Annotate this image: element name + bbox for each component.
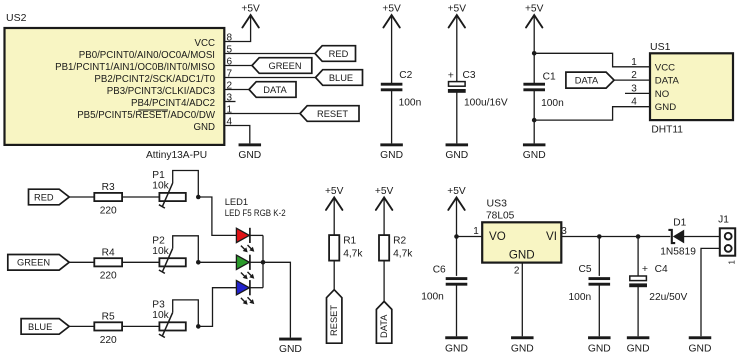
- svg-text:GREEN: GREEN: [17, 258, 50, 268]
- svg-text:+: +: [448, 69, 454, 81]
- net flag DATA (to sensor): [566, 72, 614, 88]
- wire BLUE flag to R5: [69, 325, 94, 327]
- svg-text:100n: 100n: [569, 292, 592, 303]
- svg-text:+5V: +5V: [447, 186, 466, 197]
- svg-text:220: 220: [100, 335, 117, 346]
- net flag RESET (output): [300, 106, 359, 122]
- wire C5 from rail: [598, 237, 600, 276]
- svg-text:1N5819: 1N5819: [660, 247, 696, 258]
- svg-text:10k: 10k: [152, 246, 169, 257]
- svg-text:C5: C5: [579, 264, 592, 275]
- wire J1 pin2 to GND: [701, 248, 720, 336]
- resistor R2 4,7k: [379, 235, 389, 261]
- svg-text:DATA: DATA: [263, 85, 287, 95]
- svg-text:PB4/PCINT4/ADC2: PB4/PCINT4/ADC2: [131, 98, 215, 109]
- svg-text:GND: GND: [238, 150, 261, 161]
- svg-text:GND: GND: [445, 344, 468, 355]
- resistor R5 220: [94, 322, 122, 330]
- svg-text:VI: VI: [546, 230, 557, 243]
- svg-text:US3: US3: [487, 197, 508, 209]
- svg-text:DHT11: DHT11: [651, 124, 683, 135]
- wire GREEN flag to R4: [69, 261, 94, 263]
- US2 pin label row 1: [77, 110, 216, 121]
- svg-text:LED1: LED1: [225, 196, 248, 207]
- wire VO node to US3 pin1: [457, 236, 483, 238]
- wire +5V to C1 node: [533, 16, 535, 85]
- svg-text:P3: P3: [152, 299, 165, 310]
- svg-text:GND: GND: [523, 150, 546, 161]
- capacitor C2: [381, 83, 403, 92]
- svg-text:PB5/PCINT5/RESET/ADC0/DW: PB5/PCINT5/RESET/ADC0/DW: [77, 110, 216, 121]
- wire green cathode to common: [250, 261, 263, 263]
- svg-text:2: 2: [514, 265, 520, 276]
- net flag DATA (vertical): [376, 301, 391, 343]
- ground J1 GND: [689, 336, 712, 354]
- ground US3 GND: [511, 336, 534, 354]
- ground C1 GND: [523, 143, 546, 160]
- svg-text:+5V: +5V: [382, 4, 401, 15]
- svg-text:NO: NO: [655, 89, 669, 100]
- svg-text:R4: R4: [102, 247, 115, 258]
- svg-text:+5V: +5V: [241, 4, 260, 15]
- wire LED common cathode bus: [262, 235, 264, 287]
- svg-text:100n: 100n: [399, 98, 422, 109]
- svg-text:3: 3: [561, 226, 567, 237]
- wire DHT11 pin1 to +5V node: [534, 53, 650, 67]
- svg-text:PB2/PCINT2/SCK/ADC1/T0: PB2/PCINT2/SCK/ADC1/T0: [94, 74, 215, 85]
- junction P1 wiper/right terminal: [196, 195, 201, 200]
- svg-text:J1: J1: [718, 215, 729, 226]
- svg-text:220: 220: [100, 205, 117, 216]
- svg-text:C1: C1: [543, 72, 556, 83]
- svg-text:US1: US1: [650, 41, 671, 53]
- svg-text:220: 220: [100, 271, 117, 282]
- svg-text:C4: C4: [655, 264, 668, 275]
- svg-text:R1: R1: [343, 236, 356, 247]
- +5V supply VCC US2: [241, 4, 260, 28]
- svg-text:+5V: +5V: [448, 4, 467, 15]
- net flag RESET (vertical): [327, 290, 342, 344]
- svg-text:US2: US2: [6, 12, 27, 24]
- junction +5V/C6/VO: [454, 234, 459, 239]
- net flag RED (output): [315, 46, 356, 62]
- svg-text:BLUE: BLUE: [28, 322, 52, 332]
- svg-text:4,7k: 4,7k: [343, 249, 363, 260]
- svg-text:LED F5 RGB K-2: LED F5 RGB K-2: [225, 208, 286, 218]
- resistor R4 220: [94, 258, 122, 266]
- svg-text:RESET: RESET: [317, 109, 348, 119]
- wire R5 to P pot: [122, 325, 159, 327]
- svg-text:1: 1: [728, 259, 737, 264]
- svg-text:100n: 100n: [421, 292, 444, 303]
- wire P2 wiper loop: [173, 236, 199, 262]
- svg-text:BLUE: BLUE: [329, 73, 353, 83]
- junction P2 wiper/right terminal: [196, 260, 201, 265]
- IC US2 Attiny13A-PU: [5, 28, 225, 145]
- svg-text:GND: GND: [511, 344, 534, 355]
- net flag RED (input): [29, 189, 70, 205]
- connector J1: [720, 228, 735, 255]
- wire LED common to GND: [263, 262, 290, 337]
- svg-text:GND: GND: [193, 122, 215, 133]
- net flag BLUE (input): [21, 319, 69, 335]
- svg-text:Attiny13A-PU: Attiny13A-PU: [146, 150, 207, 161]
- svg-text:R2: R2: [393, 236, 406, 247]
- wire C6 to GND: [456, 284, 458, 336]
- diode D1 1N5819 (Schottky): [668, 230, 684, 244]
- svg-text:R3: R3: [102, 182, 115, 193]
- svg-text:+: +: [642, 263, 648, 275]
- svg-text:4,7k: 4,7k: [393, 249, 413, 260]
- wire DHT11 pin4 to GND node: [534, 107, 650, 120]
- wire US2 pin7 to BLUE flag: [224, 77, 315, 79]
- svg-text:GND: GND: [279, 344, 302, 355]
- svg-text:+5V: +5V: [525, 4, 544, 15]
- svg-text:GND: GND: [588, 344, 611, 355]
- wire DHT11 pin3 stub: [625, 92, 650, 94]
- wire US2 pin1 to RESET flag: [224, 113, 300, 115]
- svg-text:P2: P2: [152, 235, 165, 246]
- +5V supply C2 rail: [382, 4, 401, 28]
- net flag GREEN (input): [8, 255, 69, 271]
- wire US2 pin3 stub: [224, 101, 235, 103]
- wire US3 pin2 to GND: [521, 263, 523, 337]
- svg-text:1: 1: [473, 226, 479, 237]
- capacitor C4 (electrolytic): [629, 276, 647, 287]
- svg-text:PB3/PCINT3/CLKI/ADC3: PB3/PCINT3/CLKI/ADC3: [107, 86, 215, 97]
- svg-text:GND: GND: [689, 344, 712, 355]
- svg-text:DATA: DATA: [655, 76, 680, 87]
- svg-text:+5V: +5V: [325, 186, 344, 197]
- wire red cathode to common: [250, 234, 263, 236]
- wire R1 to RESET flag: [333, 261, 335, 290]
- svg-text:R5: R5: [102, 311, 115, 322]
- wire C4 to GND: [637, 286, 639, 337]
- wire C1 to GND node: [533, 90, 535, 144]
- wire US2 pin4 to GND: [224, 126, 249, 144]
- svg-text:PB1/PCINT1/AIN1/OC0B/INT0/MISO: PB1/PCINT1/AIN1/OC0B/INT0/MISO: [55, 62, 215, 73]
- +5V supply C3 rail: [448, 4, 467, 28]
- svg-text:RED: RED: [34, 192, 54, 202]
- resistor R3 220: [94, 193, 122, 201]
- junction +5V/C1/DHT VCC: [532, 51, 537, 56]
- wire R3 to P pot: [122, 196, 159, 198]
- svg-text:DATA: DATA: [575, 76, 599, 86]
- +5V supply C1 rail: [525, 4, 544, 28]
- trimmer P1 10k: [159, 183, 186, 208]
- svg-text:10k: 10k: [152, 181, 169, 192]
- +5V supply C6 rail: [447, 186, 466, 210]
- svg-text:RED: RED: [329, 49, 349, 59]
- capacitor C3 (electrolytic): [448, 82, 466, 93]
- ground C5 GND: [588, 336, 611, 354]
- junction C4/VI rail: [636, 234, 641, 239]
- svg-text:P1: P1: [152, 170, 165, 181]
- wire +5V to C2: [391, 16, 393, 85]
- resistor R1 4,7k: [329, 235, 339, 261]
- wire P2 to LED green anode: [198, 261, 236, 263]
- svg-text:GND: GND: [627, 344, 650, 355]
- wire +5V to R2: [383, 198, 385, 235]
- junction C5/VI rail: [597, 234, 602, 239]
- wire +5V to R1: [333, 198, 335, 235]
- wire VI rail: [561, 236, 670, 238]
- ground LED GND: [279, 338, 302, 355]
- ground C4 GND: [627, 336, 650, 354]
- wire +5V to C3: [456, 16, 458, 82]
- svg-text:RESET: RESET: [329, 305, 339, 336]
- ground C2 GND: [380, 143, 403, 160]
- svg-text:GREEN: GREEN: [268, 61, 301, 71]
- svg-text:VCC: VCC: [195, 38, 215, 49]
- svg-text:100u/16V: 100u/16V: [464, 98, 508, 109]
- svg-text:78L05: 78L05: [486, 211, 515, 222]
- wire C3 to GND: [456, 92, 458, 143]
- ground C3 GND: [445, 143, 468, 160]
- wire P3 to LED blue anode: [198, 288, 236, 327]
- ground C6 GND: [445, 336, 468, 354]
- wire P1 wiper loop: [173, 171, 199, 198]
- wire +5V to VO node: [456, 198, 458, 237]
- wire RED flag to R3: [69, 196, 94, 198]
- capacitor C1: [523, 83, 545, 92]
- svg-text:D1: D1: [673, 217, 686, 228]
- IC US3 78L05 regulator: [482, 222, 561, 262]
- svg-text:GND: GND: [509, 248, 535, 261]
- +5V supply R1 rail: [325, 186, 344, 210]
- svg-text:100n: 100n: [541, 98, 564, 109]
- wire US2 pin6 to GREEN flag: [224, 65, 252, 67]
- IC US1 DHT11: [650, 53, 733, 120]
- +5V supply R2 rail: [375, 186, 394, 210]
- svg-text:PB0/PCINT0/AIN0/OC0A/MOSI: PB0/PCINT0/AIN0/OC0A/MOSI: [79, 50, 215, 61]
- svg-text:C3: C3: [463, 70, 476, 81]
- LED blue chip: [236, 280, 254, 305]
- svg-text:10k: 10k: [152, 310, 169, 321]
- svg-text:C2: C2: [399, 70, 412, 81]
- junction LED common: [261, 260, 266, 265]
- svg-text:GND: GND: [445, 150, 468, 161]
- wire P1 to LED red anode: [198, 197, 236, 235]
- junction P3 wiper/right terminal: [196, 324, 201, 329]
- wire P3 wiper loop: [173, 300, 199, 327]
- junction C1 GND/DHT GND: [532, 118, 537, 123]
- wire C6 from node: [456, 237, 458, 276]
- svg-text:C6: C6: [433, 265, 446, 276]
- capacitor C5: [589, 277, 611, 286]
- svg-text:VO: VO: [489, 230, 506, 243]
- wire C5 to GND: [598, 284, 600, 336]
- net flag DATA (output): [249, 82, 296, 98]
- wire D1 to J1 pin1: [684, 236, 720, 238]
- svg-text:DATA: DATA: [379, 314, 389, 338]
- LED green chip: [236, 255, 254, 280]
- trimmer P3 10k: [159, 312, 186, 337]
- capacitor C6: [446, 277, 468, 286]
- svg-text:GND: GND: [655, 102, 676, 113]
- wire US2 pin8 to +5V: [224, 16, 250, 42]
- wire US2 pin2 to DATA flag: [224, 89, 249, 91]
- svg-text:VCC: VCC: [655, 62, 675, 73]
- wire R2 to DATA flag: [383, 261, 385, 302]
- wire blue cathode to common: [250, 287, 263, 289]
- ground US2 GND: [238, 143, 261, 160]
- svg-text:22u/50V: 22u/50V: [649, 292, 687, 303]
- svg-text:GND: GND: [380, 150, 403, 161]
- svg-text:+5V: +5V: [375, 186, 394, 197]
- LED red chip: [236, 228, 254, 253]
- wire US2 pin5 to RED flag: [224, 53, 315, 55]
- net flag BLUE (output): [316, 70, 363, 86]
- net flag GREEN (output): [252, 58, 312, 74]
- wire C4 from rail: [637, 237, 639, 277]
- wire C2 to GND: [391, 90, 393, 144]
- trimmer P2 10k: [159, 248, 186, 273]
- wire DHT11 pin2 to DATA flag: [614, 79, 650, 81]
- wire R4 to P pot: [122, 261, 159, 263]
